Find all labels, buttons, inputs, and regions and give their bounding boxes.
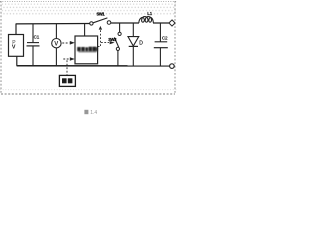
- controller box U1: [75, 36, 98, 64]
- caption 图1.4: [84, 110, 97, 116]
- wire: bottom rail: [17, 65, 170, 67]
- wire: top rail right segment (L1 to output): [153, 22, 169, 24]
- figure border bottom (dashed): [1, 93, 175, 95]
- wire: C1 top lead: [32, 24, 34, 43]
- wire: top rail left segment: [16, 23, 90, 25]
- svg-text:V: V: [54, 41, 58, 47]
- signal wire: temperature sensor dashed: [66, 60, 68, 75]
- switch SW2: [118, 32, 121, 35]
- svg-text:1.4: 1.4: [90, 110, 97, 116]
- output terminal positive (diamond): [169, 20, 175, 26]
- switch SW1: [90, 22, 93, 25]
- figure border left (dashed): [0, 1, 2, 93]
- wire: C2 bottom lead: [159, 48, 161, 66]
- wire: diode branch bottom: [132, 46, 134, 66]
- wire: PV negative lead: [16, 56, 18, 66]
- svg-text:C2: C2: [162, 35, 168, 40]
- svg-text:V: V: [12, 45, 16, 51]
- svg-text:C1: C1: [34, 35, 40, 40]
- control arrow to SW1: [99, 26, 102, 30]
- wire: controller sense lead: [84, 24, 86, 36]
- controller text (blurred CJK simulation): [77, 47, 98, 53]
- wire: top rail middle segment (SW1 to L1): [111, 22, 139, 24]
- wire: PV positive lead: [15, 24, 17, 35]
- control line dashed to SW2: [101, 42, 109, 44]
- wire: voltmeter top lead: [55, 24, 57, 39]
- wire: SW2 branch bottom: [117, 51, 119, 66]
- svg-text:SW1: SW1: [97, 11, 106, 16]
- wire: diode branch top: [132, 23, 134, 37]
- faint scan line: [0, 89, 177, 91]
- voltmeter V: [52, 39, 61, 48]
- figure border right (dashed): [174, 1, 176, 93]
- control arrow to SW2: [110, 41, 115, 44]
- scan halftone texture: [1, 3, 176, 16]
- wire: C1 bottom lead: [32, 46, 34, 66]
- temperature sensor box: [59, 75, 75, 86]
- control line dashed from controller: [100, 30, 102, 46]
- svg-text:L1: L1: [147, 11, 152, 16]
- output terminal negative (circle): [170, 64, 175, 69]
- temperature text (blurred CJK simulation): [62, 78, 72, 83]
- capacitor C1: [27, 42, 39, 44]
- wire: C2 top lead: [159, 23, 161, 42]
- signal arrow: V to controller: [62, 42, 69, 44]
- figure border top (dotted): [0, 1, 177, 3]
- inductor L1: [139, 17, 154, 23]
- PV module box: [9, 35, 24, 57]
- svg-text:SW2: SW2: [108, 37, 117, 42]
- capacitor C2: [155, 41, 168, 43]
- svg-text:D: D: [139, 40, 143, 46]
- diode D: [128, 37, 139, 46]
- signal arrow: temperature to controller: [63, 58, 69, 60]
- wire: voltmeter bottom lead: [55, 48, 57, 66]
- wire: SW2 branch top: [119, 23, 121, 32]
